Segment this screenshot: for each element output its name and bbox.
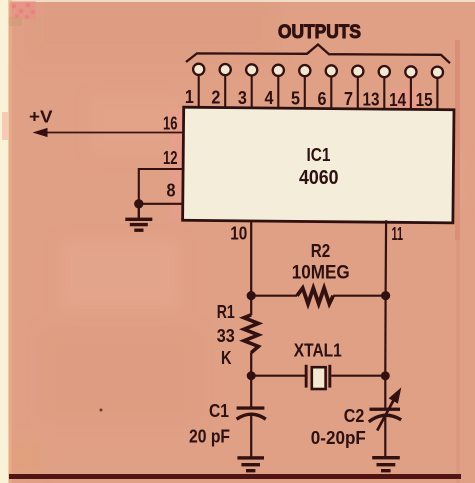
R1 label [217, 301, 235, 322]
wire pin 3 stub [251, 76, 253, 110]
svg-text:5: 5 [291, 88, 300, 109]
crystal XTAL1 symbol [305, 365, 332, 389]
+V arrowhead [33, 128, 48, 137]
svg-text:33: 33 [217, 325, 235, 346]
node junction R2 left (pin 10) [247, 291, 256, 300]
svg-text:10: 10 [230, 223, 247, 244]
pin number 2 [211, 87, 220, 108]
capacitor C2 (variable) symbol [369, 387, 402, 430]
wire pin11 node to crystal node [384, 296, 387, 376]
R1 value 33 [217, 325, 235, 346]
wire pin 2 stub [224, 75, 226, 109]
pin number 13 [363, 89, 380, 110]
pin number 14 [389, 89, 407, 110]
C2 label [344, 405, 365, 426]
svg-text:C2: C2 [344, 405, 365, 426]
wire pin 16 to +V [45, 132, 184, 134]
wire crystal right lead [331, 375, 385, 377]
wire pin 13 stub [383, 77, 385, 109]
IC1 label [307, 145, 331, 165]
wire pin 1 stub [198, 75, 200, 109]
output terminal pin 1 [193, 64, 204, 75]
node junction crystal right [381, 371, 390, 380]
svg-text:3: 3 [238, 87, 247, 108]
output terminal pin 3 [246, 64, 257, 75]
svg-text:14: 14 [389, 89, 407, 110]
svg-text:6: 6 [318, 88, 327, 109]
wire pin 11 down [385, 220, 388, 295]
svg-text:8: 8 [167, 180, 176, 201]
ground (pin 8) [125, 204, 152, 232]
wire pin 12 [139, 169, 184, 204]
C1 label [209, 400, 229, 421]
node junction crystal left [247, 371, 256, 380]
R2 value 10MEG [292, 263, 350, 284]
R1 value K [221, 347, 232, 368]
wire crystal node to C1 [250, 376, 252, 407]
pin number 12 [163, 147, 178, 168]
output terminal pin 5 [299, 65, 310, 76]
XTAL1 label [294, 341, 342, 361]
svg-text:1: 1 [185, 86, 194, 107]
svg-text:+V: +V [29, 106, 53, 126]
output terminal pin 7 [352, 66, 363, 77]
output terminal pin 4 [273, 65, 284, 76]
4060 value label [299, 167, 339, 189]
wire pin 15 stub [436, 78, 438, 109]
wire C2 to ground [384, 415, 386, 457]
pin number 5 [291, 88, 300, 109]
pin number 10 [230, 223, 247, 244]
node junction R2 right (pin 11) [381, 291, 390, 300]
wire pin 4 stub [277, 76, 279, 109]
ground (C1) [237, 456, 264, 472]
output terminal pin 6 [326, 65, 337, 76]
resistor R2 [297, 288, 333, 304]
wire pin 8 [139, 203, 184, 205]
+V supply label [29, 106, 53, 126]
svg-text:R2: R2 [311, 240, 331, 261]
svg-text:13: 13 [363, 89, 380, 110]
output terminal pin 2 [220, 64, 231, 75]
outputs brace [186, 45, 450, 64]
node junction pin8/pin12 [134, 199, 143, 208]
output terminal pin 14 [405, 66, 416, 77]
pin number 16 [163, 113, 178, 134]
wire pin 6 stub [330, 77, 332, 110]
label OUTPUTS [278, 22, 361, 43]
C1 value 20 pF [189, 425, 230, 446]
C2 value 0-20pF [311, 427, 366, 448]
ground (C2) [372, 456, 400, 472]
wire R1 top lead [250, 296, 252, 315]
resistor R1 [244, 315, 259, 353]
svg-text:11: 11 [392, 223, 404, 244]
svg-text:12: 12 [163, 147, 178, 168]
R2 label [311, 240, 331, 261]
svg-text:IC1: IC1 [307, 145, 331, 165]
svg-text:4060: 4060 [299, 167, 339, 189]
svg-text:C1: C1 [209, 400, 229, 421]
pin number 4 [265, 87, 275, 108]
svg-text:R1: R1 [217, 301, 235, 322]
wire R1 bottom lead [250, 352, 252, 375]
pin number 7 [344, 88, 353, 109]
wire R2 right lead [333, 295, 385, 297]
output terminal pin 13 [379, 66, 390, 77]
pin number 6 [318, 88, 327, 109]
wire crystal left lead [251, 375, 305, 377]
svg-text:10MEG: 10MEG [292, 263, 350, 284]
svg-text:OUTPUTS: OUTPUTS [278, 22, 361, 43]
pin number 8 [167, 180, 176, 201]
pin number 3 [238, 87, 247, 108]
wire pin 5 stub [304, 76, 306, 109]
output terminal pin 15 [432, 67, 443, 78]
pin number 15 [416, 89, 433, 110]
svg-text:0-20pF: 0-20pF [311, 427, 366, 448]
IC U1: IC1 4060 body [183, 107, 454, 223]
svg-text:20 pF: 20 pF [189, 425, 230, 446]
wire crystal node to C2 [384, 376, 386, 408]
pin number 11 [392, 223, 404, 244]
wire pin 7 stub [357, 77, 359, 109]
pin number 1 [185, 86, 194, 107]
capacitor C1 symbol [237, 406, 266, 419]
wire pin 14 stub [410, 78, 412, 110]
svg-text:XTAL1: XTAL1 [294, 341, 342, 361]
svg-text:7: 7 [344, 88, 353, 109]
wire R2 left lead [251, 295, 297, 297]
wire C1 to ground [250, 414, 252, 458]
svg-text:K: K [221, 347, 232, 368]
svg-text:4: 4 [265, 87, 275, 108]
svg-text:16: 16 [163, 113, 178, 134]
wire pin 10 down [250, 220, 252, 295]
svg-text:2: 2 [211, 87, 220, 108]
svg-text:15: 15 [416, 89, 433, 110]
